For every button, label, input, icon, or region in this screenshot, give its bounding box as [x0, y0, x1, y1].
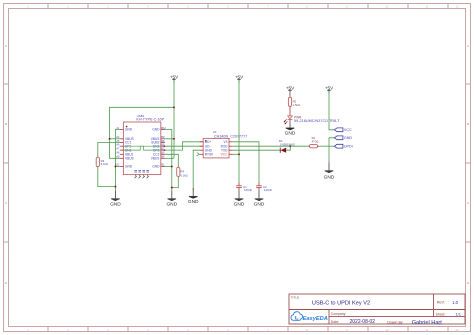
wire DP2 to UD+ — [165, 142, 203, 150]
resistor R4 — [177, 167, 180, 176]
frame column ticks top — [48, 4, 448, 9]
pin B7 DP2 (USB1 right) — [153, 147, 165, 152]
node R4/GND junction — [171, 187, 173, 189]
svg-text:1.5kΩ: 1.5kΩ — [293, 103, 300, 107]
diode D1 1N5819WS — [280, 148, 286, 153]
pin B1 GND (USB1 right) — [152, 164, 165, 169]
netport GND — [334, 136, 352, 140]
pin B12 GND (USB1 right) — [152, 127, 166, 132]
wire R3 bottom to GND — [98, 167, 116, 187]
svg-text:U1: U1 — [213, 130, 217, 134]
node RXD/D1/R1 junction — [289, 145, 291, 147]
wire D1 anode up to RXD node — [286, 146, 290, 150]
ground GND (C1) — [234, 191, 245, 208]
svg-text:GND: GND — [285, 131, 296, 137]
wire A1 GND down left — [115, 130, 119, 191]
pin B5 CC2 (USB1 right) — [153, 152, 165, 157]
node A12 junction — [114, 165, 116, 167]
frame row letters — [5, 44, 469, 285]
wire R1 to UPDI port — [318, 145, 320, 147]
node VCC junction — [238, 153, 240, 155]
ground GND (U1) — [188, 188, 199, 205]
svg-text:1.0: 1.0 — [452, 300, 458, 305]
title block h divider company/date — [329, 316, 465, 318]
pin B8 SUB2 (USB1 right) — [151, 140, 165, 145]
pin 4 RTS# (U1 left) — [200, 153, 214, 157]
pin 2 UD- (U1 left) — [200, 144, 211, 148]
svg-text:Date:: Date: — [331, 320, 339, 324]
svg-text:C: C — [5, 201, 7, 205]
svg-text:D: D — [5, 281, 7, 285]
svg-text:VCC: VCC — [221, 153, 228, 157]
connector USB1 KH-TYPE-C-16P body — [123, 122, 160, 175]
wire node to R1 — [290, 145, 308, 147]
svg-text:Sheet:: Sheet: — [436, 312, 446, 316]
svg-text:UPDI: UPDI — [344, 145, 353, 149]
wire CC2 to R4 — [165, 154, 178, 167]
wire DN2 to UD- — [165, 145, 203, 147]
svg-text:V3: V3 — [223, 140, 227, 144]
wire U1 GND pin down — [193, 150, 199, 190]
svg-text:D: D — [467, 281, 469, 285]
LED PWR — [284, 116, 293, 124]
ground GND (C2) — [254, 191, 265, 208]
svg-text:1/1: 1/1 — [455, 312, 461, 317]
svg-text:Gabriel Hart: Gabriel Hart — [412, 320, 443, 326]
polarity dot USB1 — [126, 126, 128, 128]
wire B1 GND — [165, 165, 172, 167]
svg-text:GND: GND — [344, 136, 353, 140]
pin 6 TXD (U1 right) — [221, 148, 233, 152]
wire V3 to C2 — [233, 142, 259, 183]
pin A1 GND (USB1 left) — [116, 127, 132, 132]
svg-text:A: A — [5, 44, 7, 48]
node B9 VBUS junction — [173, 138, 175, 140]
node +5V/top-feed junction — [173, 106, 175, 108]
node VBUS left junction — [109, 138, 111, 140]
resistor R1 — [310, 145, 318, 148]
frame column ticks bottom — [48, 327, 448, 332]
pin 3 GND (U1 left) — [200, 148, 213, 152]
svg-text:+5V: +5V — [235, 74, 244, 79]
svg-text:Company:: Company: — [331, 312, 347, 316]
svg-text:GND: GND — [152, 165, 160, 169]
svg-text:B12: B12 — [161, 127, 166, 130]
node B1 junction — [171, 165, 173, 167]
wire GND port down — [329, 138, 334, 163]
wire R4 bottom to GND — [172, 176, 179, 187]
svg-text:REV:: REV: — [437, 301, 445, 305]
wire +5V to VCC port — [329, 91, 334, 130]
svg-text:GND: GND — [324, 174, 335, 180]
wire LED to GND — [289, 120, 291, 123]
svg-text:5.1kΩ: 5.1kΩ — [101, 162, 108, 166]
EasyEDA logo — [291, 312, 328, 322]
svg-text:GND: GND — [110, 201, 121, 207]
svg-text:100nF: 100nF — [264, 188, 272, 192]
internal crossover DN1-DN2 — [123, 146, 160, 150]
title block h divider — [289, 309, 465, 311]
svg-text:CH340N_C2977777: CH340N_C2977777 — [214, 134, 247, 138]
wire TXD to D1 cathode — [233, 149, 280, 151]
svg-text:5.1kΩ: 5.1kΩ — [180, 173, 187, 177]
pin A9 VBUS (USB1 left) — [116, 156, 133, 161]
node R3/GND junction — [114, 186, 116, 188]
svg-text:VBUS: VBUS — [125, 157, 134, 161]
wire +5V down to VBUS right — [173, 80, 175, 159]
pin 8 V3 (U1 right) — [223, 140, 232, 144]
svg-text:Drawn By:: Drawn By: — [387, 320, 403, 324]
svg-text:A12: A12 — [115, 164, 120, 167]
svg-text:GND: GND — [125, 165, 133, 169]
shield pins 13-16 (USB1 bottom) — [134, 170, 149, 178]
wire +5V to R2 — [289, 93, 291, 97]
svg-text:VBUS: VBUS — [151, 157, 160, 161]
title block frame — [289, 294, 465, 324]
title block v divider rev/sheet — [433, 294, 435, 317]
pin 5 VCC (U1 right) — [221, 153, 233, 157]
title block v divider logo — [328, 310, 330, 325]
node DP2 pin junction — [164, 149, 166, 151]
frame row ticks left — [4, 84, 9, 242]
svg-text:UD+: UD+ — [205, 140, 212, 144]
IC U1 CH340N body — [203, 138, 229, 158]
no-connect arrow RTS# — [196, 153, 199, 156]
pin A12 GND (USB1 left) — [115, 164, 133, 169]
capacitor C1 — [236, 183, 242, 191]
ground GND (LED) — [285, 123, 296, 137]
wire VBUS top feed — [110, 107, 174, 139]
resistor R2 — [288, 97, 291, 106]
wire B4 VBUS — [165, 157, 174, 159]
pin A6 DP1 (USB1 left) — [116, 144, 131, 149]
svg-text:+5V: +5V — [325, 85, 334, 90]
polarity dot U1 — [205, 140, 207, 142]
svg-text:USB-C to UPDI Key V2: USB-C to UPDI Key V2 — [312, 301, 370, 307]
svg-text:GND: GND — [254, 201, 265, 207]
svg-text:+5V: +5V — [286, 85, 295, 90]
svg-text:EasyEDA: EasyEDA — [303, 316, 328, 322]
pin A7 DN1 (USB1 left) — [116, 147, 131, 152]
svg-text:GND: GND — [152, 128, 160, 132]
svg-text:2022-08-02: 2022-08-02 — [350, 319, 376, 325]
wire CC1 to R3 — [98, 143, 120, 158]
svg-text:B: B — [5, 122, 7, 126]
svg-text:C: C — [467, 201, 469, 205]
pin 1 UD+ (U1 left) — [200, 140, 212, 144]
wire A4 VBUS — [110, 138, 120, 140]
svg-text:GND: GND — [166, 201, 177, 207]
wire VBUS left drop to A9 — [110, 139, 120, 159]
wire B9 VBUS — [165, 138, 174, 140]
frame row ticks right — [466, 84, 471, 242]
pin R1 left — [308, 145, 310, 147]
power flag +5V (USB) — [170, 74, 179, 82]
pin B9 VBUS (USB1 right) — [151, 136, 165, 141]
svg-text:GND: GND — [234, 201, 245, 207]
svg-text:VCC: VCC — [344, 128, 352, 132]
pin 7 RXD (U1 right) — [221, 144, 233, 148]
svg-text:100nF: 100nF — [244, 188, 252, 192]
ground GND (USB left) — [110, 191, 121, 208]
pin A5 CC1 (USB1 left) — [116, 140, 131, 145]
svg-text:GND: GND — [125, 128, 133, 132]
resistor R3 — [96, 157, 99, 166]
pin B6 DN2 (USB1 right) — [153, 144, 165, 149]
power flag +5V (header) — [325, 85, 334, 93]
node DN2 pin junction — [164, 145, 166, 147]
ground GND (header) — [324, 163, 335, 181]
capacitor C2 — [256, 183, 262, 191]
wire VCC pin — [233, 153, 239, 155]
wire R2 to LED — [289, 106, 291, 116]
svg-text:B: B — [467, 122, 469, 126]
pin A4 VBUS (USB1 left) — [116, 136, 133, 141]
svg-text:RTS#: RTS# — [205, 153, 213, 157]
wire +5V down to VCC/C1 — [238, 80, 240, 183]
svg-text:KH-TYPE-C-16P: KH-TYPE-C-16P — [136, 118, 164, 122]
internal crossover DP1-DP2 — [123, 146, 160, 150]
pin A8 SBU1 (USB1 left) — [116, 152, 133, 157]
power flag +5V (LED) — [286, 85, 295, 93]
power flag +5V (U1) — [235, 74, 244, 82]
svg-text:A: A — [467, 44, 469, 48]
svg-text:TITLE:: TITLE: — [291, 296, 300, 300]
wire B12 GND down right — [165, 130, 172, 191]
svg-text:470Ω: 470Ω — [312, 140, 319, 144]
svg-text:GND: GND — [188, 199, 199, 205]
wire A12 GND — [115, 165, 119, 167]
svg-text:99-218UMC/N37CD TR8-T: 99-218UMC/N37CD TR8-T — [294, 119, 340, 123]
wire RXD to node — [233, 145, 290, 147]
pin B4 VBUS (USB1 right) — [151, 156, 165, 161]
netport VCC — [334, 128, 352, 132]
netport UPDI — [334, 144, 352, 148]
svg-text:+5V: +5V — [170, 74, 179, 79]
ground GND (USB right) — [166, 191, 177, 208]
